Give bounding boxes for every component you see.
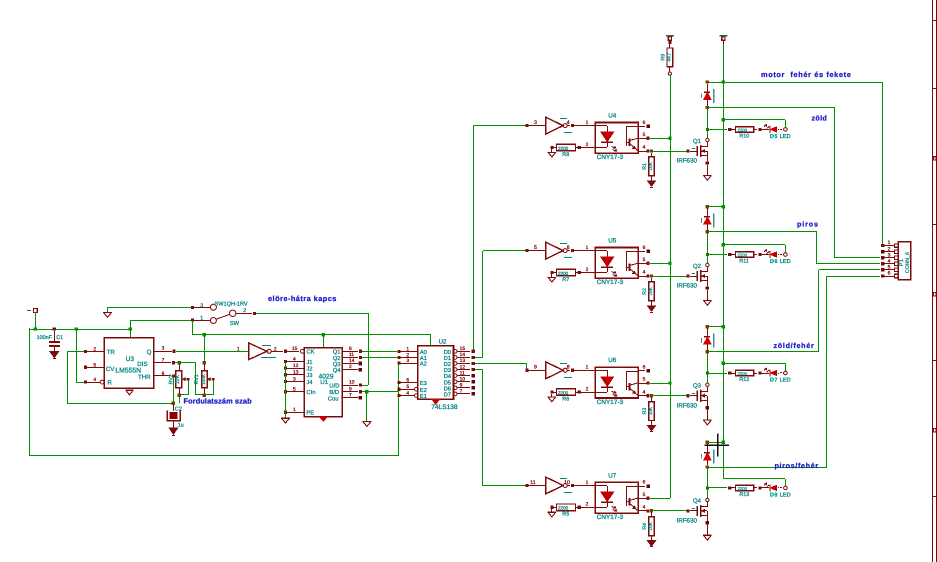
power flag -V left	[27, 310, 31, 312]
transistor Q4 IRF630	[687, 509, 690, 512]
wire DIS to RV2 and RV1 bottom	[175, 362, 196, 364]
pin 13 D2	[453, 362, 457, 366]
svg-text:SW1QH-1RV: SW1QH-1RV	[215, 302, 248, 308]
resistor R12	[728, 371, 731, 374]
svg-text:J1: J1	[306, 360, 312, 366]
junction drain-led	[706, 253, 709, 256]
pin 4 emitter	[638, 395, 647, 397]
ground Q4	[703, 534, 712, 536]
svg-text:R7: R7	[562, 277, 569, 283]
svg-text:2: 2	[93, 347, 96, 353]
svg-text:2200: 2200	[738, 371, 748, 376]
svg-text:THR: THR	[138, 374, 151, 381]
trimmer RV2	[178, 361, 181, 364]
pin 12 J2	[284, 367, 287, 370]
pin 2 P1	[881, 250, 885, 254]
svg-text:2200: 2200	[738, 253, 748, 258]
svg-text:IRF630: IRF630	[677, 158, 698, 165]
pin 4 emitter	[638, 510, 647, 512]
wire D0 riser ch1	[473, 126, 475, 350]
svg-text:R8: R8	[562, 152, 569, 158]
pin 5 E2	[397, 388, 400, 391]
connector P1 CONN_6 body	[898, 242, 910, 280]
svg-text:14: 14	[460, 352, 466, 358]
svg-text:Q3: Q3	[693, 383, 702, 390]
pin 10 D5	[453, 380, 457, 384]
wire	[366, 392, 368, 421]
ground R5	[548, 511, 556, 513]
svg-text:11: 11	[460, 370, 465, 376]
optocoupler U6 CNY17-3	[595, 367, 638, 398]
svg-text:CIn: CIn	[306, 389, 315, 396]
pin 5 collector	[638, 383, 647, 385]
svg-text:10K: 10K	[648, 406, 654, 415]
svg-text:R10: R10	[739, 133, 749, 139]
svg-text:piros/fehér: piros/fehér	[775, 461, 819, 470]
pin 7 Cou	[342, 397, 358, 399]
svg-text:3: 3	[162, 346, 165, 352]
transistor Q2 IRF630	[687, 274, 690, 277]
svg-text:2: 2	[586, 387, 589, 393]
svg-text:10K: 10K	[648, 161, 654, 170]
svg-text:14: 14	[349, 358, 355, 364]
svg-text:Fordulatszám szab: Fordulatszám szab	[184, 397, 253, 406]
wire pin5 to pullup bus	[650, 138, 670, 140]
pin 2 A1	[397, 356, 400, 359]
pin 3 A2	[397, 361, 400, 364]
svg-text:LED: LED	[780, 134, 791, 140]
svg-text:1: 1	[586, 245, 589, 251]
ground Q2	[703, 299, 712, 301]
svg-text:4: 4	[293, 356, 296, 362]
svg-text:motor fehér és fekete: motor fehér és fekete	[761, 70, 851, 79]
svg-text:CONN_6: CONN_6	[905, 252, 911, 273]
wire drain	[707, 232, 709, 263]
svg-text:4: 4	[643, 505, 646, 511]
pin 11 Q2	[342, 357, 358, 359]
svg-text:10: 10	[349, 380, 355, 386]
svg-text:5: 5	[643, 132, 646, 138]
channel 4 driver	[525, 441, 790, 547]
wire motor common top	[709, 82, 882, 84]
power pin R9	[666, 35, 674, 37]
svg-text:J4: J4	[306, 380, 313, 386]
svg-text:C1: C1	[56, 335, 63, 341]
svg-text:U5: U5	[608, 237, 617, 244]
svg-text:J2: J2	[306, 366, 312, 373]
svg-text:2: 2	[586, 142, 589, 148]
svg-text:R11: R11	[739, 259, 749, 265]
svg-text:1u: 1u	[178, 422, 184, 428]
wire	[35, 312, 37, 329]
svg-text:2: 2	[243, 308, 246, 314]
svg-text:zöld: zöld	[812, 113, 828, 122]
svg-text:TR: TR	[107, 349, 116, 356]
wire C1rail to R pin	[76, 329, 78, 382]
svg-text:8: 8	[567, 365, 570, 371]
svg-text:D5: D5	[444, 380, 451, 386]
wire left vertical	[29, 328, 31, 455]
junction bus diode 3	[722, 325, 725, 328]
svg-text:6: 6	[643, 245, 646, 251]
pin 14 D1	[453, 356, 457, 360]
transistor Q3 IRF630	[687, 394, 690, 397]
ground SW	[103, 312, 112, 314]
wire U1 vcc drop	[323, 335, 325, 348]
svg-text:PE: PE	[306, 411, 314, 417]
wire drain	[707, 352, 709, 383]
resistor R2	[651, 278, 653, 282]
svg-text:5: 5	[643, 377, 646, 383]
pin 4 E1	[397, 394, 400, 397]
svg-text:4: 4	[643, 389, 646, 395]
pin 4 emitter	[638, 276, 647, 278]
svg-text:3: 3	[534, 120, 537, 126]
svg-text:IRF630: IRF630	[677, 402, 698, 409]
svg-text:Q4: Q4	[693, 498, 702, 505]
wire Q to inverter	[176, 351, 249, 353]
channel 3 driver	[525, 325, 790, 432]
pin 4 emitter	[638, 151, 647, 153]
svg-text:R9: R9	[660, 54, 666, 61]
pin 6 base	[638, 251, 645, 253]
wire pin4 to gate	[650, 395, 687, 397]
svg-text:4: 4	[643, 270, 646, 276]
pin 9 B/D	[342, 391, 358, 393]
svg-text:D2: D2	[444, 361, 451, 368]
svg-text:1: 1	[586, 480, 589, 486]
svg-text:Cou: Cou	[328, 395, 339, 402]
pin 3 P1	[881, 256, 884, 259]
sheet frame right border	[932, 0, 934, 562]
svg-text:2200: 2200	[558, 506, 569, 511]
pin 5 collector	[638, 498, 647, 500]
svg-text:D7: D7	[444, 393, 451, 399]
svg-text:zöld/fehér: zöld/fehér	[774, 341, 815, 350]
svg-text:2: 2	[586, 502, 589, 508]
svg-text:15: 15	[292, 346, 298, 352]
node input ch1	[525, 124, 528, 127]
svg-text:U7: U7	[608, 472, 617, 479]
svg-text:RV2: RV2	[168, 374, 174, 384]
inverter 11/10	[528, 485, 546, 487]
optocoupler U4 CNY17-3	[595, 123, 638, 154]
junction node	[172, 402, 175, 405]
wire THR drop	[173, 377, 175, 403]
svg-text:R4: R4	[642, 523, 648, 530]
junction drain-led	[706, 128, 709, 131]
node input ch4	[525, 484, 528, 487]
wire Q1 to A0	[362, 351, 397, 353]
svg-text:B/D: B/D	[329, 389, 339, 396]
wire led return	[785, 245, 787, 253]
junction	[34, 327, 37, 330]
svg-text:elöre-hátra kapcs: elöre-hátra kapcs	[268, 294, 337, 303]
inverter 9/8	[528, 370, 546, 372]
svg-text:1: 1	[888, 240, 891, 246]
trimmer RV1	[203, 361, 206, 364]
svg-text:9: 9	[534, 365, 537, 371]
svg-text:D8: D8	[770, 493, 778, 499]
junction	[203, 333, 206, 336]
wire B/D to E pins	[362, 391, 399, 393]
wire main positive bus	[723, 45, 725, 479]
svg-text:U/D: U/D	[329, 383, 339, 390]
ground Q1	[703, 174, 712, 176]
resistor R13	[728, 486, 731, 489]
pin 10 U/D	[342, 385, 358, 387]
svg-text:100K: 100K	[201, 373, 206, 385]
wire led return	[785, 479, 787, 486]
wire jog x=130	[130, 320, 132, 338]
svg-text:U2: U2	[439, 338, 447, 345]
svg-text:C2: C2	[175, 406, 182, 412]
svg-text:7: 7	[162, 357, 165, 363]
ground R8	[548, 151, 556, 153]
inverter 5/6	[528, 250, 546, 252]
pin 15 D0	[453, 350, 457, 354]
wire rail y=320 to switch	[130, 320, 191, 322]
svg-text:6: 6	[643, 365, 646, 371]
svg-text:10: 10	[460, 377, 466, 383]
wire drain to led resistor	[707, 373, 727, 375]
svg-text:5: 5	[93, 362, 96, 368]
svg-text:5: 5	[406, 384, 409, 390]
svg-text:E2: E2	[420, 387, 427, 394]
svg-text:R: R	[107, 380, 112, 387]
svg-text:7: 7	[460, 389, 463, 395]
svg-text:3: 3	[293, 376, 296, 382]
ground U3	[125, 389, 133, 391]
wire led return	[785, 363, 787, 371]
svg-text:2200: 2200	[738, 128, 748, 133]
diode D3	[706, 325, 709, 328]
svg-text:U1: U1	[320, 379, 328, 386]
wire jam chain to gnd	[285, 362, 287, 418]
svg-text:D7: D7	[770, 378, 778, 384]
svg-text:6: 6	[349, 346, 352, 352]
ground C1	[50, 352, 59, 358]
led D8	[761, 487, 769, 489]
svg-text:5: 5	[534, 245, 537, 251]
pin 3 Q	[154, 351, 172, 353]
svg-text:CNY17-3: CNY17-3	[597, 154, 624, 161]
wire phase1 zold	[709, 107, 835, 109]
svg-text:D5: D5	[770, 134, 778, 140]
svg-text:E1: E1	[420, 394, 427, 400]
ground R4	[648, 541, 656, 546]
svg-text:1: 1	[406, 346, 409, 352]
svg-text:3: 3	[200, 303, 203, 309]
svg-text:LED: LED	[780, 493, 791, 499]
cursor crosshair	[717, 434, 719, 457]
pin 2 TR	[84, 350, 87, 353]
wire drain	[707, 467, 709, 498]
pin 13 J3	[284, 373, 287, 376]
node input ch3	[525, 369, 528, 372]
svg-text:6: 6	[643, 120, 646, 126]
ground R6	[548, 396, 556, 398]
svg-text:A2: A2	[420, 361, 427, 368]
resistor R7	[550, 271, 553, 274]
svg-text:E3: E3	[420, 380, 427, 387]
svg-text:1: 1	[586, 365, 589, 371]
svg-text:R5: R5	[562, 512, 569, 518]
svg-text:CK: CK	[306, 349, 314, 356]
pin 6 THR	[154, 375, 171, 377]
junction drain-led	[706, 371, 709, 374]
wire phase4 pirosfeher	[709, 467, 827, 469]
svg-text:D3: D3	[444, 367, 451, 374]
wire D2 to ch3	[475, 363, 526, 365]
pin 5 collector	[638, 263, 647, 265]
svg-text:R12: R12	[739, 377, 749, 383]
node input ch2	[525, 249, 528, 252]
transistor Q1 IRF630	[687, 149, 690, 152]
svg-text:CNY17-3: CNY17-3	[597, 279, 624, 286]
svg-text:13: 13	[460, 358, 466, 364]
svg-text:6: 6	[643, 480, 646, 486]
wire vcc rail y=335	[192, 334, 431, 336]
svg-text:D6: D6	[444, 385, 451, 392]
pin 5 P1	[881, 268, 884, 271]
svg-text:Q2: Q2	[693, 263, 702, 270]
wire SW common to U1 U/D	[256, 313, 368, 315]
wire phase3 zoldfeher	[709, 351, 819, 353]
pin 6 Q1	[342, 351, 358, 353]
pin 11 D4	[453, 374, 457, 378]
wire RV2 bottom to node	[179, 397, 181, 403]
svg-text:CNY17-3: CNY17-3	[597, 514, 624, 521]
svg-text:6: 6	[888, 271, 891, 277]
svg-text:22K: 22K	[175, 374, 181, 384]
svg-text:5: 5	[643, 257, 646, 263]
wire pin5 to pullup bus	[650, 383, 670, 385]
junction	[322, 333, 325, 336]
svg-text:D0: D0	[444, 349, 451, 356]
svg-text:R3: R3	[642, 408, 648, 415]
svg-text:5: 5	[293, 387, 296, 393]
pin 4 R	[84, 381, 87, 384]
svg-text:13: 13	[293, 370, 299, 376]
svg-text:2: 2	[406, 352, 409, 358]
wire drain	[707, 108, 709, 138]
resistor R8	[550, 146, 553, 149]
svg-text:5: 5	[643, 492, 646, 498]
svg-text:4: 4	[93, 377, 96, 383]
svg-text:1: 1	[237, 346, 240, 352]
wire RV2 wiper to bottom	[188, 380, 190, 395]
pin 9 D6	[453, 386, 457, 390]
wire drain to led resistor	[707, 129, 727, 131]
svg-text:LED: LED	[780, 378, 791, 384]
ground R1	[648, 181, 656, 186]
svg-text:10K: 10K	[648, 286, 654, 295]
pin 4 P1	[881, 262, 884, 265]
svg-text:piros: piros	[797, 220, 819, 229]
pin 3 J4	[284, 380, 287, 383]
svg-text:3: 3	[406, 358, 409, 364]
svg-text:Q: Q	[147, 349, 152, 356]
svg-text:9: 9	[460, 383, 463, 389]
wire gnd to SW pin3	[108, 307, 191, 309]
wire pin4 to gate	[650, 276, 687, 278]
svg-text:15: 15	[460, 346, 466, 352]
ic U1 4029 body	[304, 348, 342, 417]
wire diode link ch2	[709, 206, 723, 208]
wire drain to led resistor	[707, 487, 727, 489]
pin 6 base	[638, 126, 645, 128]
led D7	[761, 373, 769, 375]
wire phase2 piros	[709, 231, 817, 233]
svg-text:7: 7	[349, 393, 352, 399]
pin 1 A0	[397, 350, 400, 353]
svg-text:6: 6	[162, 371, 165, 377]
svg-text:10K: 10K	[648, 521, 654, 530]
svg-text:Q1: Q1	[693, 138, 702, 145]
diode D2	[706, 205, 709, 208]
svg-text:5: 5	[888, 264, 891, 270]
pin 7 D7	[453, 392, 457, 396]
wire pin5 to pullup bus	[650, 498, 670, 500]
channel 2 driver	[525, 205, 790, 313]
junction bus diode 2	[722, 205, 725, 208]
ground U1 inputs	[281, 417, 290, 419]
svg-text:R13: R13	[739, 492, 749, 498]
svg-text:IRF630: IRF630	[677, 518, 698, 525]
ic U2 gnd triangle	[432, 400, 439, 405]
svg-text:R1: R1	[642, 163, 648, 170]
svg-text:R2: R2	[642, 288, 648, 295]
wire Q2 to A1	[362, 357, 397, 359]
junction bus diode 1	[722, 80, 725, 83]
svg-text:U3: U3	[126, 356, 135, 363]
diode D4	[706, 441, 709, 444]
svg-text:100nF: 100nF	[37, 335, 53, 341]
pin 4 J1	[284, 360, 287, 363]
pin 2 Q4	[342, 369, 358, 371]
wire diode link ch3	[709, 326, 723, 328]
pin 12 D3	[453, 368, 457, 372]
pin 5 CV	[84, 366, 87, 369]
resistor R6	[550, 391, 553, 394]
wire gnd rail y=329	[29, 329, 130, 331]
wire diode link ch4	[709, 442, 723, 444]
pin 7 DIS	[154, 362, 171, 364]
svg-text:4: 4	[643, 145, 646, 151]
wire RV1 wiper to bottom	[213, 380, 215, 395]
svg-text:Q3: Q3	[333, 361, 341, 368]
channel 1 driver	[525, 80, 790, 187]
svg-text:CV: CV	[106, 366, 115, 373]
svg-text:2200: 2200	[558, 271, 569, 276]
pin 15 CK	[300, 349, 304, 353]
svg-text:Q1: Q1	[333, 349, 341, 356]
capacitor C2	[173, 405, 175, 411]
svg-text:CNY17-3: CNY17-3	[597, 399, 624, 406]
junction	[365, 390, 368, 393]
ground B/D	[362, 420, 371, 422]
svg-text:2200: 2200	[558, 391, 569, 396]
svg-text:R6: R6	[562, 397, 569, 403]
resistor R3	[651, 397, 653, 402]
power pin bus	[719, 35, 727, 37]
wire bottom rail	[29, 455, 399, 457]
resistor R10	[728, 128, 731, 131]
junction bus diode 4	[722, 441, 725, 444]
svg-text:U4: U4	[608, 112, 617, 119]
ic U2 74LS138 body	[418, 346, 454, 400]
